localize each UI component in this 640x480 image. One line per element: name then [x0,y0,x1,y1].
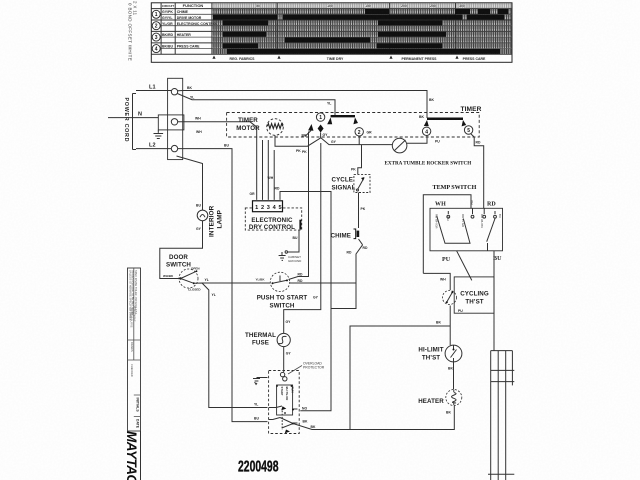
svg-text:RUN: RUN [290,387,294,393]
svg-text:INITIALS: INITIALS [135,398,139,413]
svg-text:GY: GY [313,296,319,300]
svg-text:PROTECTOR: PROTECTOR [303,366,325,370]
svg-text:PK: PK [302,150,307,154]
svg-text:CIRCUIT: CIRCUIT [162,4,174,8]
svg-text:ELECTRONIC: ELECTRONIC [251,217,293,224]
svg-text:REMOVE BURRS: REMOVE BURRS [129,308,132,328]
svg-text:EXTRA TUMBLE ROCKER SWITCH: EXTRA TUMBLE ROCKER SWITCH [385,161,472,167]
svg-text:TH’ST: TH’ST [465,299,483,306]
svg-text:REG. FABRICS: REG. FABRICS [230,57,256,61]
svg-text:HI-LIMIT: HI-LIMIT [418,347,443,354]
svg-text:100: 100 [327,4,333,8]
svg-text:LAMP: LAMP [217,209,224,228]
svg-text:RD: RD [347,251,352,255]
svg-text:BK/RD: BK/RD [162,33,174,37]
svg-text:GY: GY [196,227,202,231]
svg-text:1: 1 [319,115,322,121]
svg-text:BU: BU [498,214,502,218]
svg-text:2: 2 [261,205,264,211]
svg-text:BU-YE-OR: BU-YE-OR [285,387,289,401]
svg-text:N: N [138,112,142,118]
svg-text:4: 4 [155,46,158,52]
svg-text:SWITCH: SWITCH [269,303,294,310]
svg-text:2200498: 2200498 [238,459,279,476]
svg-text:DRAWN: DRAWN [130,342,134,352]
svg-text:GY: GY [286,352,292,356]
svg-text:BU: BU [293,236,298,240]
svg-text:PRESS CARE: PRESS CARE [177,45,200,49]
svg-text:5: 5 [467,128,470,134]
svg-text:1: 1 [255,205,258,211]
svg-text:WH: WH [196,130,202,134]
svg-text:300: 300 [459,4,465,8]
svg-text:RD: RD [275,187,280,191]
svg-text:250: 250 [430,4,436,8]
svg-text:BK: BK [436,321,441,325]
svg-text:L2: L2 [149,143,156,149]
svg-text:HEATER: HEATER [177,33,192,37]
svg-text:4: 4 [425,129,428,135]
svg-text:WH: WH [446,216,450,221]
svg-text:BK: BK [311,425,316,429]
svg-text:150: 150 [365,4,371,8]
svg-text:YL: YL [205,278,209,282]
svg-text:ELECTRONIC CONTROL: ELECTRONIC CONTROL [177,22,219,26]
svg-text:WH: WH [470,200,474,205]
svg-text:SWITCH: SWITCH [166,262,191,269]
svg-text:RD WH GR: RD WH GR [435,214,439,228]
svg-text:PK: PK [361,207,366,211]
svg-text:RD YL GR: RD YL GR [461,214,465,227]
svg-text:TIMER: TIMER [238,117,258,124]
svg-text:BK: BK [303,420,308,424]
svg-text:GY/PK: GY/PK [162,10,173,14]
svg-text:RD: RD [487,202,496,208]
svg-text:PK: PK [296,149,301,153]
svg-text:WH/BK: WH/BK [163,274,174,278]
svg-text:5: 5 [278,205,281,211]
svg-text:RD: RD [298,279,303,283]
svg-text:BK: BK [429,98,434,102]
svg-text:BK: BK [302,134,307,138]
svg-text:CYCLING: CYCLING [460,291,489,298]
svg-text:RD: RD [298,273,303,277]
svg-text:GY: GY [286,320,292,324]
svg-text:FUSE: FUSE [252,340,269,347]
svg-text:START: START [280,387,284,396]
svg-text:WH: WH [195,117,201,121]
svg-text:TH’ST: TH’ST [422,355,440,362]
svg-text:BK/BU: BK/BU [162,45,174,49]
svg-text:PRESS CARE: PRESS CARE [463,57,486,61]
svg-text:WH: WH [435,202,446,208]
svg-text:POWER CORD: POWER CORD [123,98,129,143]
svg-text:SCALE NONE: SCALE NONE [132,306,135,322]
svg-text:TIME DRY: TIME DRY [327,57,344,61]
svg-text:PU: PU [435,140,440,144]
svg-text:GY/YL: GY/YL [162,16,173,20]
svg-text:PU: PU [442,257,451,263]
svg-text:CHIME: CHIME [177,10,189,14]
svg-text:DRY CONTROL: DRY CONTROL [249,224,295,231]
svg-text:3: 3 [267,205,270,211]
svg-text:2 X 11: 2 X 11 [133,1,138,16]
svg-text:OPEN: OPEN [191,267,200,271]
svg-text:DATE: DATE [135,419,139,429]
svg-text:200: 200 [401,4,407,8]
svg-text:BU: BU [196,204,201,208]
svg-text:PUSH TO START: PUSH TO START [257,295,308,302]
svg-text:2: 2 [358,130,361,136]
svg-text:DRIVE MOTOR: DRIVE MOTOR [177,16,202,20]
svg-text:PK: PK [351,168,356,172]
svg-text:GY: GY [323,133,329,137]
svg-text:DOOR: DOOR [169,254,188,261]
svg-text:50: 50 [256,4,260,8]
svg-text:WH: WH [268,176,274,180]
svg-text:CYCLE: CYCLE [332,177,353,184]
svg-text:MAYTAG: MAYTAG [124,431,139,480]
svg-text:FUNCTION: FUNCTION [183,3,204,8]
svg-text:SIGNAL: SIGNAL [332,185,356,192]
svg-text:WH: WH [440,278,446,282]
svg-text:RD WH BU: RD WH BU [480,214,484,228]
svg-text:CHIME: CHIME [331,233,351,240]
svg-text:RD: RD [363,246,368,250]
svg-text:YL: YL [327,102,331,106]
svg-text:1: 1 [155,12,158,18]
svg-text:PERMANENT PRESS: PERMANENT PRESS [401,57,437,61]
svg-text:2: 2 [155,24,158,30]
svg-text:YL: YL [190,95,194,99]
svg-text:BU: BU [254,417,259,421]
svg-text:YL/OR: YL/OR [162,22,173,26]
svg-text:CLOSED: CLOSED [188,288,201,292]
svg-text:MOTOR: MOTOR [236,125,260,132]
svg-text:0 BOND OFFSET WHITE: 0 BOND OFFSET WHITE [128,3,133,61]
svg-text:TEMP SWITCH: TEMP SWITCH [433,185,477,191]
svg-text:YL/BK: YL/BK [256,278,266,282]
svg-text:BU: BU [224,144,229,148]
svg-text:BK: BK [446,411,451,415]
svg-text:L1: L1 [149,85,156,91]
svg-text:BK: BK [187,86,192,90]
svg-text:BK: BK [448,367,453,371]
svg-text:TIMER: TIMER [461,106,482,113]
svg-text:HEATER: HEATER [418,398,444,405]
svg-text:INTERIOR: INTERIOR [209,205,216,237]
svg-text:GY: GY [331,140,337,144]
svg-text:NO: NO [302,407,307,411]
svg-text:CHECKED: CHECKED [130,364,134,377]
svg-text:PU: PU [458,309,463,313]
svg-text:BK: BK [419,115,424,119]
svg-text:RD: RD [476,141,481,145]
svg-text:YL: YL [254,403,258,407]
svg-text:GR: GR [367,131,373,135]
svg-text:YL: YL [212,293,216,297]
svg-text:3: 3 [155,35,158,41]
svg-text:THERMAL: THERMAL [245,332,276,339]
svg-text:OR: OR [250,192,256,196]
svg-text:GROUND: GROUND [288,259,302,263]
